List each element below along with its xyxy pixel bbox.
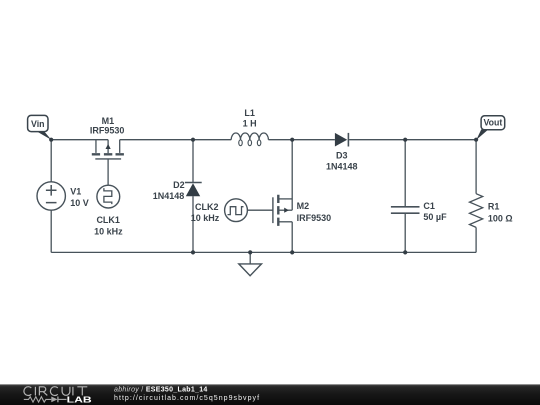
svg-text:M2: M2 <box>297 201 310 211</box>
svg-text:100 Ω: 100 Ω <box>488 214 513 224</box>
svg-text:IRF9530: IRF9530 <box>90 125 125 135</box>
svg-text:CLK1: CLK1 <box>96 215 120 225</box>
svg-text:M1: M1 <box>102 116 115 126</box>
svg-text:abhiroy / ESE350_Lab1_14: abhiroy / ESE350_Lab1_14 <box>114 386 208 393</box>
svg-text:L1: L1 <box>244 108 255 118</box>
svg-text:R1: R1 <box>488 201 500 211</box>
svg-text:IRF9530: IRF9530 <box>297 213 332 223</box>
svg-text:10 kHz: 10 kHz <box>94 227 123 237</box>
svg-text:D2: D2 <box>173 180 185 190</box>
svg-text:Vin: Vin <box>31 119 45 129</box>
svg-text:1N4148: 1N4148 <box>326 161 358 171</box>
svg-text:10 kHz: 10 kHz <box>191 213 220 223</box>
svg-text:1N4148: 1N4148 <box>153 191 185 201</box>
svg-text:V1: V1 <box>70 187 81 197</box>
svg-text:D3: D3 <box>336 150 348 160</box>
svg-text:LAB: LAB <box>67 395 92 404</box>
svg-text:CLK2: CLK2 <box>195 202 219 212</box>
svg-text:50 µF: 50 µF <box>423 212 447 222</box>
svg-text:http://circuitlab.com/c5q5np9s: http://circuitlab.com/c5q5np9sbvpyf <box>114 395 260 402</box>
svg-text:10 V: 10 V <box>70 198 89 208</box>
svg-text:1 H: 1 H <box>243 118 257 128</box>
svg-text:Vout: Vout <box>483 118 502 128</box>
svg-text:C1: C1 <box>423 201 435 211</box>
